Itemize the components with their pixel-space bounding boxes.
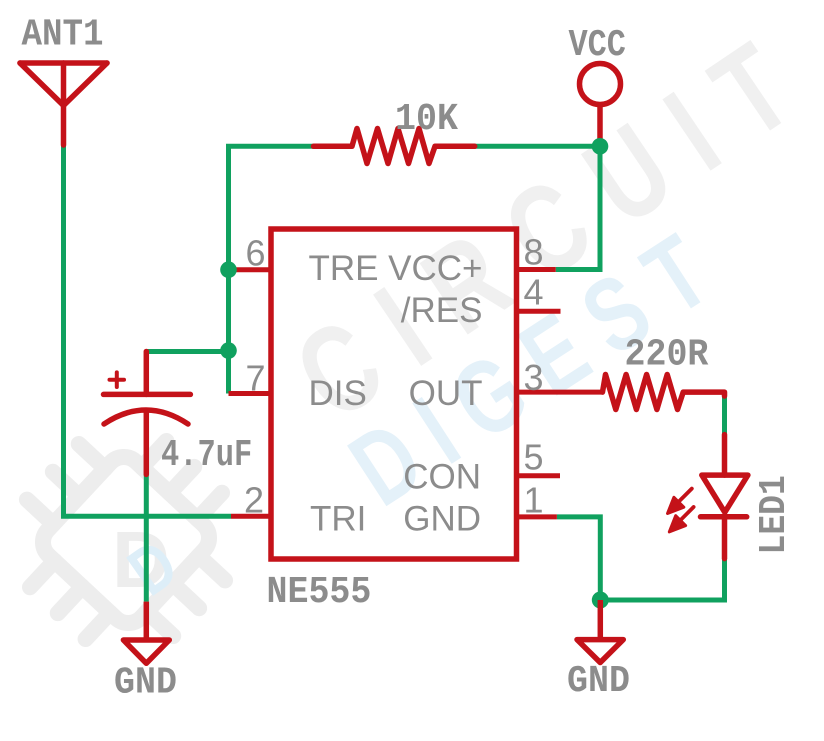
watermark logo chip <box>0 399 267 682</box>
resistor R1 10K <box>314 129 475 164</box>
svg-text:4: 4 <box>524 272 544 313</box>
svg-text:TRI: TRI <box>310 499 366 538</box>
svg-text:4.7uF: 4.7uF <box>161 434 252 477</box>
svg-text:ANT1: ANT1 <box>22 13 104 56</box>
junction node pin6 <box>220 261 237 278</box>
wire capacitor to GND <box>144 474 149 601</box>
wire pin 1 to GND node to LED <box>557 517 725 600</box>
pin 6 stub <box>229 267 272 272</box>
wire LED anode <box>722 394 727 435</box>
svg-text:3: 3 <box>524 357 544 398</box>
wire VCC node to pin 8 <box>556 146 600 269</box>
svg-text:2: 2 <box>244 480 264 521</box>
pin 3 stub <box>517 390 603 395</box>
svg-text:220R: 220R <box>625 333 709 376</box>
junction node GND right <box>592 592 609 609</box>
ground GND left <box>144 602 150 640</box>
svg-text:NE555: NE555 <box>267 571 372 614</box>
LED arrow 1 <box>668 489 694 532</box>
wire capacitor to node <box>146 349 228 354</box>
svg-text:CON: CON <box>403 458 481 497</box>
pin 8 stub <box>517 267 556 272</box>
wire antenna to pin 2 <box>64 145 232 516</box>
svg-text:/RES: /RES <box>401 291 483 330</box>
pin 2 stub <box>231 514 271 519</box>
svg-text:6: 6 <box>245 233 265 274</box>
ground GND right <box>598 600 604 640</box>
junction node VCC <box>592 138 609 155</box>
wire top net left <box>229 146 314 393</box>
capacitor C1 4.7uF <box>104 352 191 475</box>
antenna ANT1 <box>20 63 107 145</box>
power VCC <box>580 64 621 105</box>
svg-text:7: 7 <box>245 358 265 399</box>
resistor R2 220R <box>603 375 725 410</box>
svg-text:GND: GND <box>114 661 177 704</box>
svg-text:5: 5 <box>524 437 544 478</box>
svg-text:GND: GND <box>403 499 481 538</box>
LED arrow 2 <box>679 507 694 522</box>
LED LED1 <box>701 435 748 559</box>
pin 1 stub <box>517 514 557 519</box>
svg-text:DIS: DIS <box>309 374 367 413</box>
svg-text:VCC+: VCC+ <box>388 249 482 288</box>
junction node pin7 <box>220 342 237 359</box>
pin 4 stub <box>517 309 561 314</box>
svg-text:1: 1 <box>524 480 544 521</box>
svg-text:TRE: TRE <box>309 249 379 288</box>
pin 5 stub <box>517 473 561 478</box>
wire resistor to VCC node <box>475 144 603 149</box>
svg-text:VCC: VCC <box>569 24 626 67</box>
svg-text:GND: GND <box>567 660 630 703</box>
svg-text:10K: 10K <box>395 98 458 141</box>
IC U1 NE555 box <box>271 229 517 559</box>
svg-text:8: 8 <box>524 232 544 273</box>
pin 7 stub <box>229 391 272 396</box>
svg-text:LED1: LED1 <box>752 475 796 554</box>
svg-text:OUT: OUT <box>409 374 483 413</box>
